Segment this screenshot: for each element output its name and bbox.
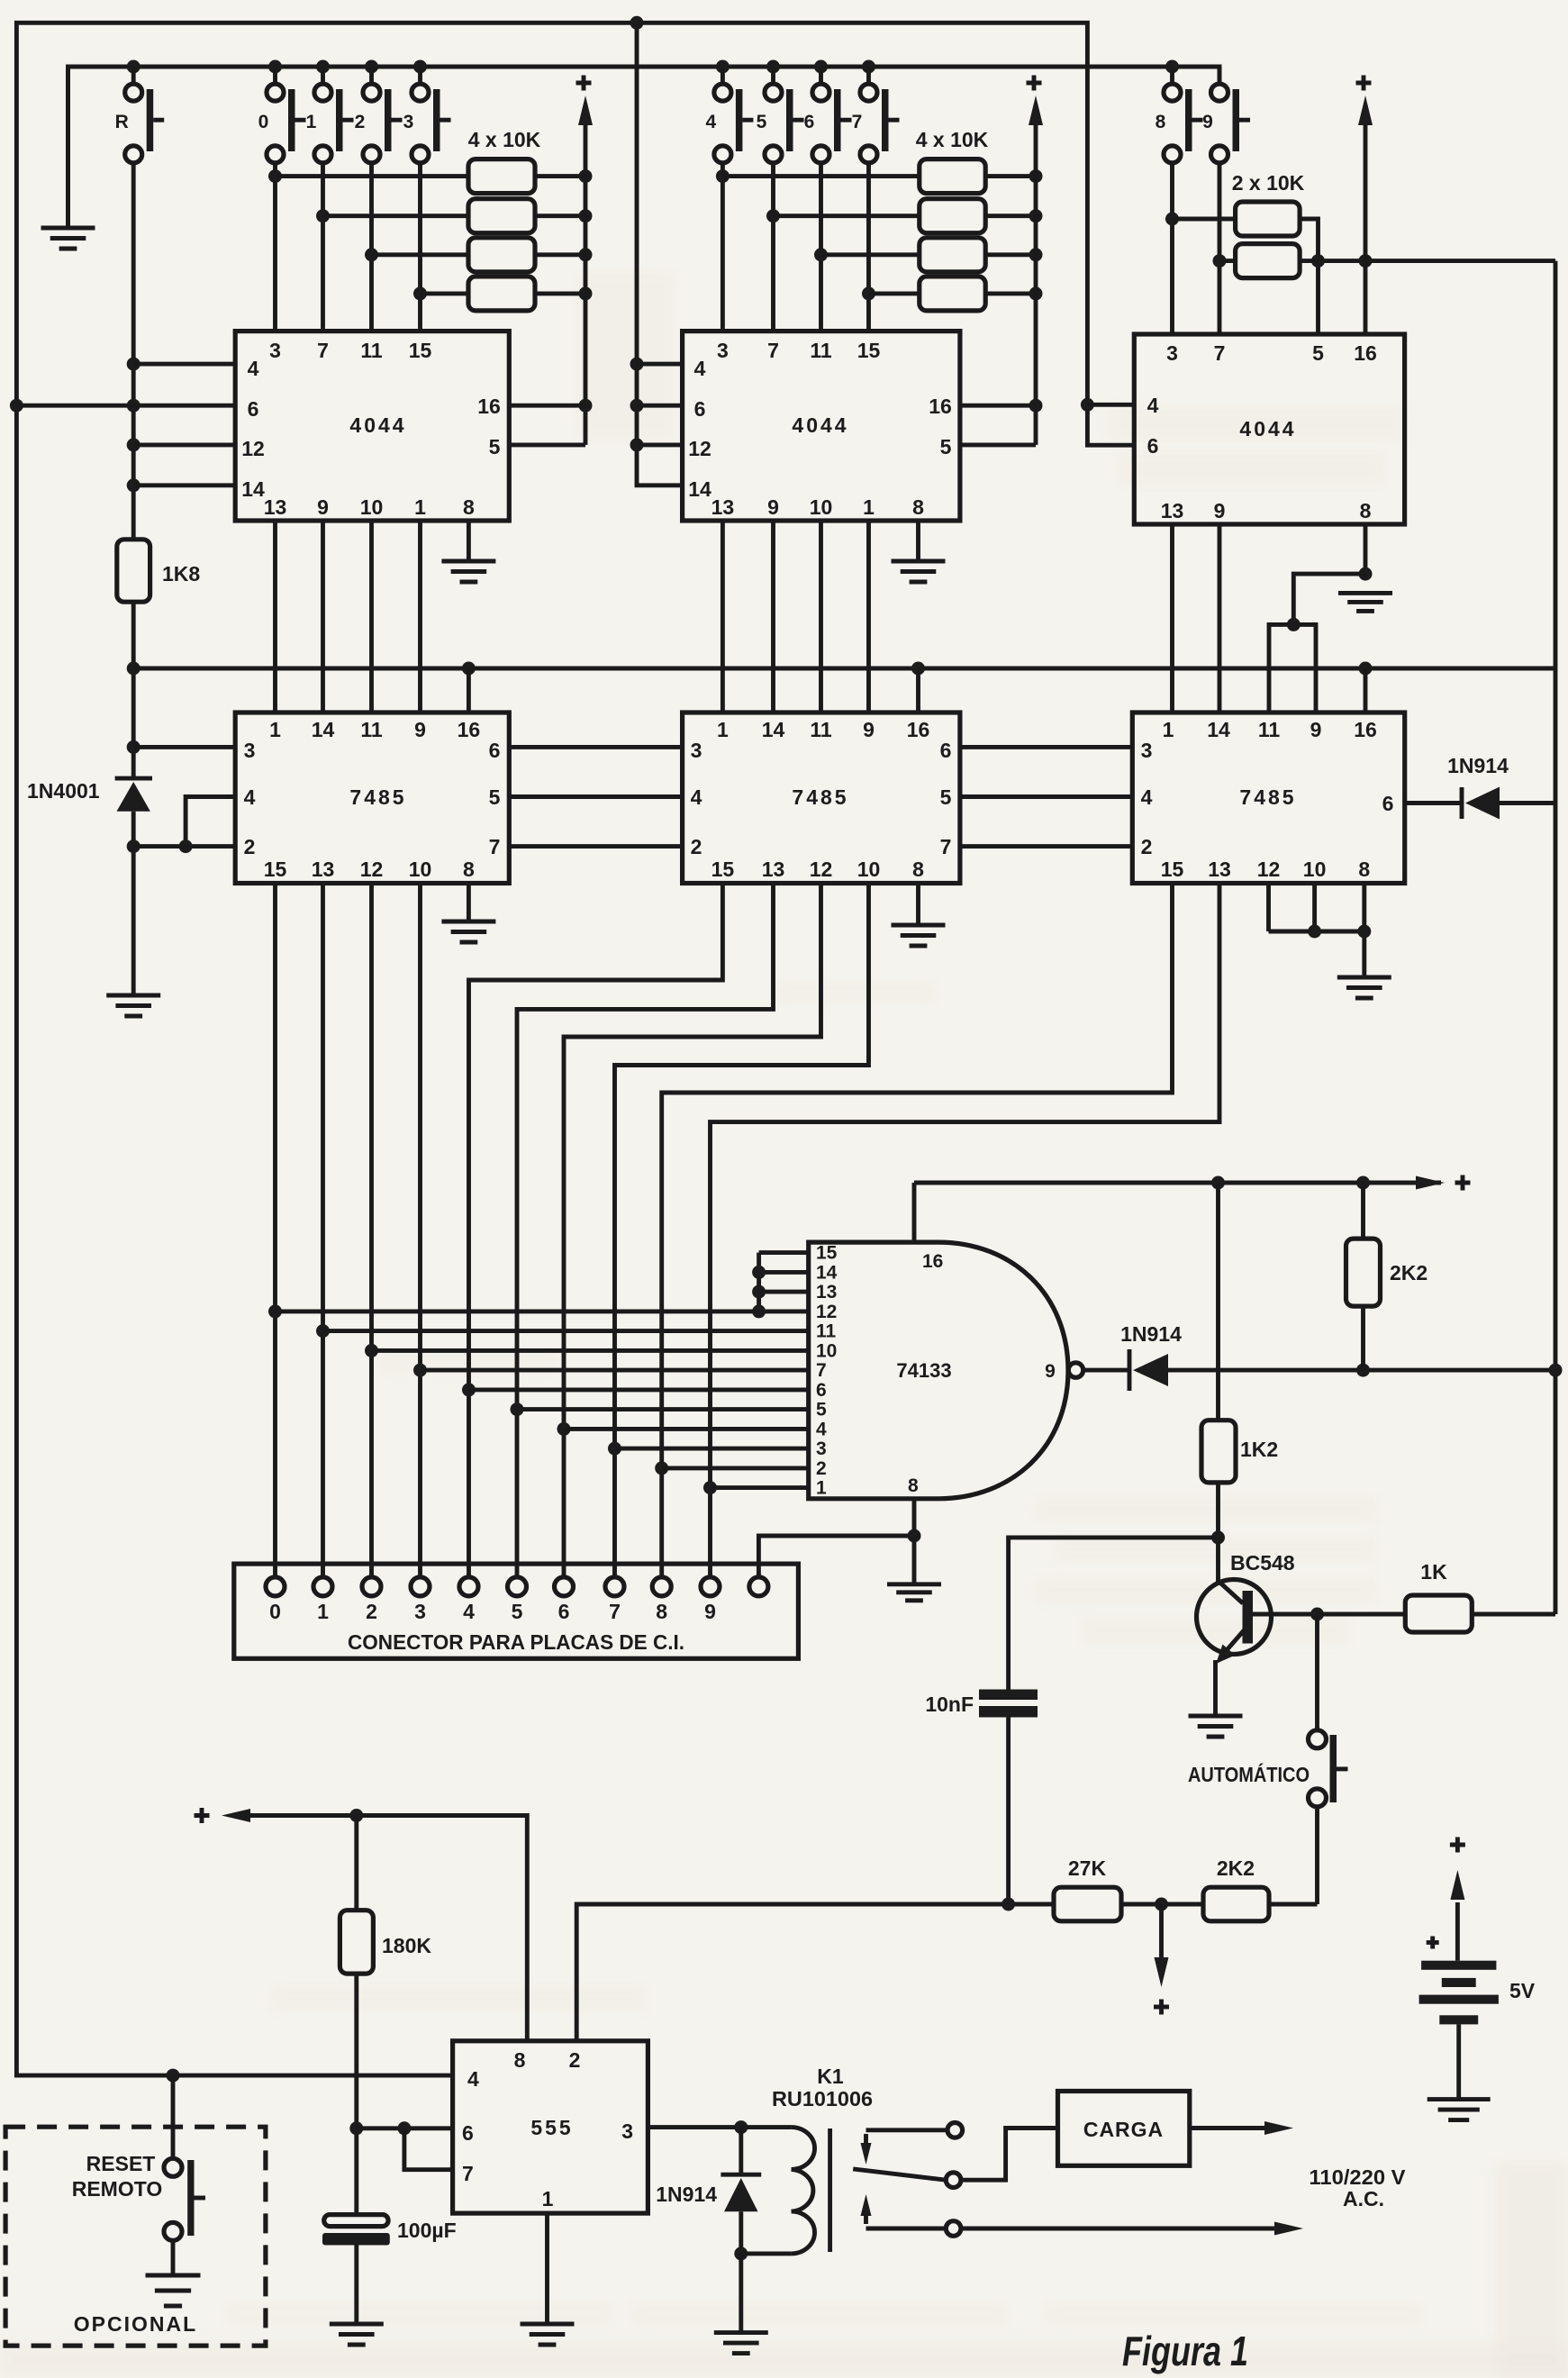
wire: 4044#3 pin 4 from border vertical bbox=[1087, 403, 1134, 407]
pushbutton 5 bbox=[771, 67, 775, 84]
connector pin circles bbox=[266, 1577, 768, 1596]
wire: digit line 1 bbox=[316, 884, 330, 1577]
ground (7485#1 pin 8) bbox=[441, 921, 495, 942]
wire: 74133 pins 15,14,13 strap to pin 12 net bbox=[752, 1253, 809, 1319]
wire: cascade 7485#2 pin5 to 7485#3 pin4 bbox=[960, 794, 1132, 799]
resistor network 2x10K bbox=[1236, 202, 1301, 278]
svg-text:1: 1 bbox=[717, 718, 729, 741]
svg-text:8: 8 bbox=[1360, 499, 1372, 522]
ground (BC548 emitter) bbox=[1189, 1716, 1243, 1737]
svg-text:1: 1 bbox=[414, 495, 426, 519]
ground (7485#3 pin 8) bbox=[1337, 977, 1391, 998]
wire: cascade 7485#1 pin7 to 7485#2 pin2 bbox=[509, 844, 682, 849]
svg-text:5: 5 bbox=[489, 435, 501, 458]
svg-text:CONECTOR PARA PLACAS DE C.: CONECTOR PARA PLACAS DE C.I. bbox=[348, 1630, 684, 1654]
pushbutton RESET REMOTO bbox=[164, 2075, 205, 2273]
wire: BC548 collector node to 1K bbox=[1310, 1608, 1405, 1621]
svg-text:A.C.: A.C. bbox=[1343, 2187, 1384, 2210]
svg-text:4: 4 bbox=[1147, 394, 1159, 417]
svg-text:13: 13 bbox=[1161, 499, 1184, 522]
svg-text:12: 12 bbox=[688, 437, 711, 460]
resistor 2K2 (pull-up) bbox=[1346, 1183, 1381, 1370]
wire: 4044#1 pin 12 bbox=[133, 442, 235, 447]
wire: 4044#2 pin 5 to + rail bbox=[960, 442, 1036, 447]
resistor 180K bbox=[340, 1816, 373, 2215]
wire: digit line 6 (from 7485#2 pin12, jog) bbox=[557, 884, 821, 1577]
pushbutton 7 bbox=[866, 67, 871, 84]
wire: timing bus (555 pin2 / 10nF / 27K / 2K2 / AUTOMATICO) bbox=[576, 1898, 1317, 2041]
svg-text:8: 8 bbox=[463, 495, 475, 519]
wire: 555 pin 1 to ground bbox=[545, 2213, 549, 2324]
resistor 1K bbox=[1405, 1595, 1472, 1632]
IC 4044 #1 body bbox=[235, 331, 509, 521]
wire: digit line 3 bbox=[413, 884, 427, 1577]
svg-text:1N914: 1N914 bbox=[1120, 1322, 1182, 1346]
wire: buttons 4-7 to 4044#2 top pins with resistor taps bbox=[716, 163, 875, 331]
+ arrow down (divider junction) bbox=[1155, 1904, 1169, 1987]
wire: 4044#2 pin 12 bbox=[637, 442, 683, 447]
svg-text:14: 14 bbox=[688, 477, 711, 501]
svg-text:6: 6 bbox=[462, 2121, 474, 2145]
svg-text:4: 4 bbox=[467, 2067, 479, 2091]
ground (1N4001) bbox=[106, 995, 160, 1016]
wire: 74133 pin 16 to Vcc bus bbox=[912, 1183, 917, 1242]
wire: 1K8 bottom to 1N4001 and +bus/pin3/pin2 taps bbox=[127, 602, 140, 778]
svg-text:7: 7 bbox=[462, 2162, 474, 2185]
wire: 4044#2 pin 8 to ground bbox=[916, 521, 920, 561]
svg-text:13: 13 bbox=[711, 495, 735, 519]
svg-text:6: 6 bbox=[694, 397, 706, 421]
IC 7485 #3 pin labels bbox=[1141, 718, 1394, 881]
svg-text:4 x 10K: 4 x 10K bbox=[468, 128, 541, 151]
wire: 10nF bottom to timing bus bbox=[1006, 1718, 1011, 1905]
svg-text:2: 2 bbox=[816, 1458, 827, 1479]
wire: 7485#1 pin 16 stub bbox=[467, 668, 471, 712]
resistor network 4x10K (group 1) bbox=[468, 159, 535, 311]
pushbutton 0 bbox=[273, 67, 277, 84]
relay K1 RU101006 coil bbox=[741, 2128, 830, 2254]
svg-text:3: 3 bbox=[816, 1439, 827, 1459]
IC 4044 #2 body bbox=[683, 331, 960, 521]
svg-text:8: 8 bbox=[463, 858, 475, 881]
svg-text:5: 5 bbox=[512, 1600, 523, 1623]
ground (RESET button) bbox=[146, 2275, 201, 2306]
svg-text:9: 9 bbox=[1310, 718, 1322, 741]
svg-text:15: 15 bbox=[409, 339, 432, 362]
svg-text:4: 4 bbox=[244, 785, 256, 809]
svg-text:16: 16 bbox=[477, 395, 501, 418]
svg-text:AUTOMÁTICO: AUTOMÁTICO bbox=[1188, 1762, 1310, 1786]
svg-text:8: 8 bbox=[912, 858, 924, 881]
pushbutton 1 bbox=[321, 67, 325, 84]
svg-text:180K: 180K bbox=[382, 1934, 431, 1957]
svg-text:16: 16 bbox=[1354, 341, 1377, 365]
wire: 74133 output to 1N914 bbox=[1083, 1368, 1129, 1373]
svg-text:4 x 10K: 4 x 10K bbox=[916, 128, 989, 151]
wire: vertical from top border to 4044#2 pins 4,6,12,14 bbox=[630, 23, 683, 486]
svg-text:16: 16 bbox=[1354, 718, 1377, 741]
IC 7485 #2 pin labels bbox=[691, 718, 952, 881]
svg-text:CARGA: CARGA bbox=[1083, 2118, 1164, 2141]
svg-text:16: 16 bbox=[929, 395, 952, 418]
svg-text:16: 16 bbox=[907, 718, 930, 741]
svg-text:3: 3 bbox=[1141, 739, 1153, 762]
dashed box RESET REMOTO (optional) bbox=[5, 2127, 266, 2346]
svg-text:5: 5 bbox=[757, 112, 767, 132]
svg-text:2: 2 bbox=[366, 1600, 377, 1623]
svg-text:16: 16 bbox=[458, 718, 481, 741]
svg-text:11: 11 bbox=[360, 339, 383, 362]
svg-text:10: 10 bbox=[857, 858, 881, 881]
capacitor 100uF bbox=[322, 2215, 390, 2324]
svg-text:8: 8 bbox=[912, 495, 924, 519]
svg-text:1K: 1K bbox=[1420, 1560, 1447, 1584]
svg-text:10: 10 bbox=[1303, 858, 1327, 881]
svg-text:5: 5 bbox=[940, 435, 952, 458]
svg-text:5: 5 bbox=[940, 785, 952, 809]
svg-text:9: 9 bbox=[1214, 499, 1226, 522]
wire: 4044#1 pin 5 to + rail bbox=[509, 442, 585, 447]
svg-text:11: 11 bbox=[1258, 718, 1281, 741]
svg-text:1K2: 1K2 bbox=[1240, 1438, 1278, 1461]
svg-text:15: 15 bbox=[264, 858, 287, 881]
svg-text:100µF: 100µF bbox=[397, 2219, 457, 2242]
wire: buttons 0-3 to 4044#1 top pins with resistor taps bbox=[268, 163, 427, 331]
svg-text:11: 11 bbox=[816, 1321, 837, 1342]
svg-text:3: 3 bbox=[403, 112, 414, 132]
svg-text:1: 1 bbox=[317, 1600, 329, 1623]
svg-text:4: 4 bbox=[248, 357, 259, 380]
svg-text:7485: 7485 bbox=[1239, 785, 1296, 809]
svg-text:RESET: RESET bbox=[86, 2152, 156, 2175]
wire: digit line 5 (from 7485#2 pin13, jog) bbox=[511, 884, 774, 1577]
connector pin number labels bbox=[269, 1600, 716, 1623]
wire: 4044#1 pin 8 to ground bbox=[467, 521, 471, 561]
svg-text:8: 8 bbox=[908, 1475, 919, 1496]
wire: 1N4001 anode to ground with pin2 tap bbox=[127, 812, 140, 995]
svg-text:REMOTO: REMOTO bbox=[72, 2177, 163, 2201]
pushbutton 6 bbox=[819, 67, 823, 84]
svg-text:7: 7 bbox=[816, 1360, 827, 1381]
svg-text:4: 4 bbox=[1141, 785, 1153, 809]
svg-text:8: 8 bbox=[656, 1600, 667, 1623]
wire: cascade 7485#1 pin6 to 7485#2 pin3 bbox=[509, 745, 682, 749]
svg-text:1: 1 bbox=[306, 112, 317, 132]
wire: 2x10K upper right to 4044#3 pin 5 bbox=[1300, 219, 1325, 334]
svg-text:27K: 27K bbox=[1068, 1856, 1107, 1880]
svg-text:13: 13 bbox=[816, 1282, 837, 1302]
wire: button 9 to 4044#3 pin 7 with 10K tap bbox=[1213, 163, 1227, 334]
ground (555 pin 1) bbox=[521, 2324, 575, 2345]
svg-text:1: 1 bbox=[269, 718, 281, 741]
svg-text:1K8: 1K8 bbox=[162, 562, 200, 585]
wire: BC548 base node to 10nF bbox=[1009, 1530, 1225, 1690]
svg-text:2: 2 bbox=[1141, 835, 1153, 858]
svg-text:9: 9 bbox=[767, 495, 779, 519]
svg-text:4044: 4044 bbox=[1239, 417, 1296, 440]
svg-text:Figura 1: Figura 1 bbox=[1122, 2328, 1248, 2374]
wire: 2x10K left taps bbox=[1173, 219, 1236, 261]
wire: relay common to CARGA bbox=[961, 2128, 1058, 2181]
svg-text:7485: 7485 bbox=[792, 785, 848, 809]
ground (100uF) bbox=[330, 2324, 384, 2345]
svg-text:14: 14 bbox=[312, 718, 335, 741]
svg-text:12: 12 bbox=[1257, 858, 1281, 881]
svg-text:4: 4 bbox=[816, 1419, 827, 1439]
wire: 7485#3 pins 12,10,8 strap to ground bbox=[1269, 884, 1372, 978]
IC 7485 #2 body bbox=[683, 712, 960, 884]
wire: 4x10K group2 left taps bbox=[722, 177, 919, 294]
wire: 74133 Vcc bus with + arrow bbox=[914, 1176, 1445, 1190]
wire: relay coil to ground bbox=[739, 2254, 743, 2333]
svg-text:9: 9 bbox=[1202, 112, 1213, 132]
IC 555 pin labels bbox=[462, 2048, 633, 2210]
svg-text:5: 5 bbox=[816, 1400, 827, 1420]
svg-text:4: 4 bbox=[463, 1600, 475, 1623]
IC 4044 #3 body bbox=[1134, 334, 1404, 524]
svg-text:3: 3 bbox=[414, 1600, 426, 1623]
resistor 2K2 (base divider) bbox=[1203, 1887, 1269, 1921]
svg-text:8: 8 bbox=[1156, 112, 1166, 132]
pushbutton 8 bbox=[1170, 67, 1174, 84]
IC 7485 #1 body bbox=[235, 712, 509, 884]
svg-text:BC548: BC548 bbox=[1230, 1551, 1295, 1575]
svg-text:9: 9 bbox=[704, 1600, 716, 1623]
svg-text:15: 15 bbox=[1161, 858, 1184, 881]
wire: 4044#1 pin 14 bbox=[133, 483, 235, 487]
IC 7485 #3 body bbox=[1132, 712, 1404, 884]
svg-text:K1: K1 bbox=[817, 2065, 844, 2088]
+ supply (555 area) bbox=[195, 1808, 210, 1823]
box CARGA bbox=[1058, 2092, 1190, 2166]
wire: 4044#1 pin 16 to + rail bbox=[509, 404, 585, 408]
svg-text:12: 12 bbox=[360, 858, 384, 881]
wire: 4044#2 pin 4 bbox=[637, 362, 683, 367]
IC 555 body bbox=[453, 2041, 648, 2213]
wire: relay NO contact line with arrow bbox=[961, 2222, 1303, 2236]
wire: ground bus to connector pin 11 bbox=[758, 1529, 920, 1577]
svg-text:7: 7 bbox=[852, 112, 863, 132]
wire: 7485#1 pin 4 to pin 2 strap bbox=[179, 797, 236, 854]
wire: 1N914 to right-side rail bbox=[1500, 801, 1555, 805]
svg-text:4: 4 bbox=[691, 785, 702, 809]
diode 1N914 (relay) bbox=[721, 2128, 761, 2261]
svg-text:4: 4 bbox=[706, 112, 717, 132]
wire: 555 pin 3 to relay bbox=[648, 2120, 748, 2134]
connector box CONECTOR PARA PLACAS DE C.I. bbox=[234, 1564, 799, 1658]
svg-text:4: 4 bbox=[694, 357, 706, 380]
wire: digit line 0 (7485#1 pin15 to connector, tap to 74133) bbox=[268, 884, 282, 1577]
svg-text:13: 13 bbox=[312, 858, 335, 881]
ground (pushbutton bus, top-left) bbox=[41, 67, 95, 249]
wire: 555 pin 6 from 180K/100uF node bbox=[357, 2121, 453, 2135]
wire: 4x10K group2 right side to + rail bbox=[985, 122, 1042, 445]
pushbutton 9 bbox=[1218, 67, 1222, 84]
svg-text:RU101006: RU101006 bbox=[772, 2087, 873, 2110]
IC 4044 #3 pin labels bbox=[1147, 341, 1377, 522]
diode 1N914 (74133 output) bbox=[1129, 1349, 1168, 1391]
pushbutton 3 bbox=[418, 67, 422, 84]
resistor 1K2 bbox=[1201, 1183, 1236, 1538]
wire: 4x10K group1 left taps bbox=[276, 177, 469, 294]
wire: left border / top border / reset net (to 555 pin 4, to 4044#3 pins 4-6) bbox=[10, 16, 1134, 2083]
svg-text:3: 3 bbox=[269, 339, 281, 362]
svg-text:3: 3 bbox=[717, 339, 729, 362]
ground (relay coil) bbox=[714, 2333, 768, 2354]
transistor Q1 BC548 bbox=[1197, 1538, 1318, 1716]
svg-text:15: 15 bbox=[711, 858, 735, 881]
IC 4044 #2 pin labels bbox=[688, 339, 952, 519]
svg-text:2: 2 bbox=[244, 835, 256, 858]
pushbutton R bbox=[131, 67, 136, 84]
svg-text:1: 1 bbox=[816, 1478, 827, 1499]
svg-text:7: 7 bbox=[609, 1600, 621, 1623]
svg-text:2K2: 2K2 bbox=[1217, 1856, 1255, 1880]
wire: digit line 8 (from 7485#3 pin15, jog) bbox=[655, 884, 1172, 1577]
wire: 7485#1 pin 2 bbox=[133, 844, 235, 849]
+ supply arrow (group 1) bbox=[578, 95, 593, 125]
ground (4044#3 pin 8) bbox=[1338, 593, 1392, 611]
svg-text:4044: 4044 bbox=[792, 413, 848, 437]
svg-text:2K2: 2K2 bbox=[1390, 1261, 1428, 1284]
diode 1N914 (7485#3 output) bbox=[1462, 787, 1500, 820]
svg-text:13: 13 bbox=[264, 495, 287, 519]
svg-text:14: 14 bbox=[816, 1262, 838, 1283]
svg-text:6: 6 bbox=[248, 397, 259, 421]
ground (74133 pin 8) bbox=[887, 1536, 941, 1601]
svg-text:2: 2 bbox=[355, 112, 366, 132]
svg-text:6: 6 bbox=[1147, 434, 1159, 458]
svg-text:2 x 10K: 2 x 10K bbox=[1232, 171, 1305, 195]
wire: cascade 7485#1 pin5 to 7485#2 pin4 bbox=[509, 794, 682, 799]
svg-text:1: 1 bbox=[1163, 718, 1174, 741]
svg-text:2: 2 bbox=[691, 835, 702, 858]
svg-text:6: 6 bbox=[489, 739, 501, 762]
labels K1 / RU101006 bbox=[772, 2065, 873, 2110]
svg-text:5: 5 bbox=[489, 785, 501, 809]
labels RESET REMOTO / OPCIONAL bbox=[72, 2152, 197, 2336]
wire: right-side vertical rail bbox=[1554, 261, 1558, 1614]
+ supply (74133 area) bbox=[1455, 1175, 1471, 1191]
resistor network 4x10K (group 2) bbox=[920, 159, 985, 311]
svg-text:6: 6 bbox=[804, 112, 815, 132]
svg-text:1N914: 1N914 bbox=[1447, 754, 1509, 777]
svg-text:7: 7 bbox=[1214, 341, 1226, 365]
svg-text:110/220 V: 110/220 V bbox=[1310, 2165, 1407, 2189]
svg-text:11: 11 bbox=[810, 339, 832, 362]
svg-text:OPCIONAL: OPCIONAL bbox=[74, 2312, 197, 2336]
wire: 7485#1 pin 8 to ground bbox=[467, 884, 471, 922]
wire: button 8 to 4044#3 pin 3 with 10K tap bbox=[1165, 163, 1179, 334]
wire: 2x10K lower right to right-side rail bbox=[1300, 254, 1555, 268]
wire: pushbutton common bus (top) bbox=[68, 60, 1220, 229]
label 110/220 V A.C. bbox=[1310, 2165, 1407, 2210]
svg-text:3: 3 bbox=[621, 2119, 633, 2143]
resistor 1K8 bbox=[117, 540, 150, 602]
svg-text:1N914: 1N914 bbox=[656, 2183, 717, 2206]
IC 7485 #1 pin labels bbox=[244, 718, 501, 881]
wire: 4044#3 outputs to 7485#3 pins 1,14 bbox=[1173, 524, 1220, 712]
wire: 4044#1 outputs to 7485#1 top pins bbox=[276, 521, 421, 712]
wire: R button column to 1K8 with taps to 4044#1 pins 4,6,12,14 bbox=[127, 163, 140, 540]
svg-text:11: 11 bbox=[810, 718, 832, 741]
wire: + feed to 555 pin 8 with 180K tap and left arrow bbox=[222, 1809, 527, 2041]
+ supply arrow (group 3) bbox=[1358, 95, 1373, 125]
+ supply arrow (group 2) bbox=[1029, 95, 1043, 125]
ground (4044#2 pin 8) bbox=[892, 561, 946, 582]
svg-text:555: 555 bbox=[530, 2116, 573, 2139]
svg-text:6: 6 bbox=[558, 1600, 570, 1623]
svg-text:15: 15 bbox=[857, 339, 881, 362]
wire: 7485#3 pin 16 stub bbox=[1364, 668, 1368, 712]
svg-text:7485: 7485 bbox=[349, 785, 406, 809]
svg-text:7: 7 bbox=[940, 835, 952, 858]
svg-text:5: 5 bbox=[1312, 341, 1324, 365]
svg-text:9: 9 bbox=[863, 718, 875, 741]
wire: 4044#1 pin 4 bbox=[133, 362, 235, 367]
svg-text:10nF: 10nF bbox=[925, 1693, 974, 1716]
wire: 555 pin 7 strap to pin 6 bbox=[404, 2128, 453, 2170]
svg-text:14: 14 bbox=[1207, 718, 1230, 741]
svg-text:2: 2 bbox=[569, 2048, 581, 2072]
svg-text:10: 10 bbox=[810, 495, 833, 519]
wire: taps from digit lines to 74133 inputs (pins 12,11,10,7,6,5,4,3,2,1) bbox=[276, 1312, 809, 1488]
svg-text:3: 3 bbox=[1166, 341, 1178, 365]
wire: 4x10K group1 right side to + rail bbox=[535, 122, 593, 445]
IC 74133 input pin labels bbox=[816, 1243, 1056, 1499]
svg-text:13: 13 bbox=[762, 858, 785, 881]
IC 74133 13-input NAND body bbox=[809, 1242, 1083, 1499]
pushbutton AUTOMATICO bbox=[1309, 1614, 1348, 1904]
pushbutton 2 bbox=[369, 67, 374, 84]
svg-text:10: 10 bbox=[409, 858, 432, 881]
wire: 4044#3 pin 8 to ground and 7485#3 pins 11,9 strap bbox=[1269, 524, 1373, 712]
ground (battery) bbox=[1428, 2100, 1491, 2120]
svg-text:9: 9 bbox=[1045, 1361, 1056, 1382]
wire: digit line 4 (from 7485#2 pin15, jog) bbox=[462, 884, 722, 1577]
svg-text:6: 6 bbox=[816, 1380, 827, 1401]
ground (7485#2 pin 8) bbox=[892, 925, 946, 946]
svg-text:10: 10 bbox=[360, 495, 384, 519]
svg-text:15: 15 bbox=[816, 1243, 838, 1264]
wire: 4044#1 pin 6 (to left border) bbox=[16, 404, 235, 408]
svg-text:3: 3 bbox=[244, 739, 256, 762]
wire: 74133 pin 8 to ground bus bbox=[912, 1499, 917, 1536]
svg-text:16: 16 bbox=[922, 1251, 943, 1272]
svg-text:5V: 5V bbox=[1509, 1979, 1536, 2002]
ground (4044#1 pin 8) bbox=[441, 561, 495, 582]
svg-text:12: 12 bbox=[241, 437, 265, 460]
wire: CARGA output arrow bbox=[1190, 2121, 1293, 2135]
svg-text:7: 7 bbox=[317, 339, 329, 362]
wire: 7485#2 pin 8 to ground bbox=[916, 884, 920, 926]
capacitor 10nF bbox=[979, 1690, 1038, 1718]
wire: 4044#2 pin 6 bbox=[637, 404, 683, 408]
pushbutton 4 bbox=[721, 67, 725, 84]
wire: 4044#2 pin 16 to + rail bbox=[960, 404, 1036, 408]
wire: + rail to 4044#3 pin 16 bbox=[1364, 122, 1368, 334]
IC 4044 #1 pin labels bbox=[241, 339, 501, 519]
svg-text:1N4001: 1N4001 bbox=[27, 779, 100, 803]
battery 5V bbox=[1419, 1838, 1499, 2100]
svg-text:8: 8 bbox=[514, 2048, 526, 2072]
svg-text:8: 8 bbox=[1358, 858, 1370, 881]
resistor 27K bbox=[1054, 1887, 1121, 1921]
svg-text:4044: 4044 bbox=[349, 413, 406, 437]
wire: match line from 1N914 to right rail with 2K2 tap bbox=[1168, 1364, 1563, 1377]
diode 1N4001 bbox=[115, 778, 152, 812]
svg-text:6: 6 bbox=[940, 739, 952, 762]
